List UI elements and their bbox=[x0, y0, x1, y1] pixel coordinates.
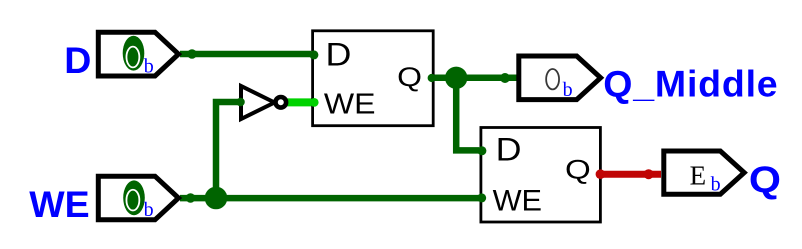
input pin D bbox=[98, 32, 178, 77]
node: D pin stub dot bbox=[187, 49, 197, 59]
value 0 on pin Q_Middle bbox=[546, 69, 559, 89]
wire WE pin to REG2.WE bbox=[180, 195, 479, 202]
node: REG2.Q port (error) bbox=[596, 169, 606, 179]
value 0 on pin D bbox=[126, 47, 139, 68]
input pin WE bbox=[98, 176, 178, 221]
node: Q_Middle pin stub dot bbox=[500, 73, 510, 83]
junction node at REG1.Q bbox=[445, 67, 467, 89]
svg-text:D: D bbox=[496, 132, 522, 168]
svg-text:D: D bbox=[64, 39, 91, 81]
svg-text:D: D bbox=[326, 37, 352, 73]
node: REG1.D port bbox=[309, 50, 318, 59]
svg-text:WE: WE bbox=[324, 88, 376, 120]
node: REG1.WE port (logic 1) bbox=[310, 98, 319, 107]
node: REG2.WE port bbox=[477, 193, 486, 202]
node: REG2.D port bbox=[477, 146, 486, 155]
svg-text:WE: WE bbox=[493, 185, 542, 217]
node: Q pin stub dot (error) bbox=[644, 169, 654, 179]
svg-text:b: b bbox=[144, 56, 154, 78]
svg-text:E: E bbox=[690, 161, 707, 191]
wire REG2.Q to output pin Q (error value, red) bbox=[601, 171, 661, 178]
svg-text:b: b bbox=[144, 199, 154, 221]
svg-text:b: b bbox=[711, 174, 721, 196]
junction node at WE bbox=[205, 187, 228, 210]
svg-text:Q: Q bbox=[397, 63, 422, 93]
NOT gate U1 bbox=[241, 86, 286, 119]
wire WE junction up to NOT gate input bbox=[216, 102, 238, 198]
output pin Q_Middle bbox=[519, 56, 601, 101]
wire REG1.Q to Q_Middle pin bbox=[431, 75, 519, 82]
output pin Q (value E) bbox=[664, 151, 744, 196]
node: REG1.Q port bbox=[428, 74, 436, 82]
register REG1 bbox=[313, 31, 434, 126]
svg-text:WE: WE bbox=[29, 183, 89, 225]
node: NOT gate input port bbox=[236, 98, 245, 107]
svg-text:Q: Q bbox=[749, 159, 781, 201]
svg-text:b: b bbox=[563, 79, 573, 101]
wire D pin to REG1.D bbox=[180, 51, 311, 58]
wire NOT gate output to REG1.WE (logic 1) bbox=[286, 98, 315, 106]
svg-text:Q: Q bbox=[565, 156, 591, 185]
wire junction down to REG2.D bbox=[456, 78, 479, 150]
value 0 on pin WE bbox=[126, 190, 139, 211]
register REG2 bbox=[481, 128, 601, 223]
node: WE pin stub dot bbox=[186, 193, 196, 203]
svg-text:Q_Middle: Q_Middle bbox=[603, 63, 778, 105]
